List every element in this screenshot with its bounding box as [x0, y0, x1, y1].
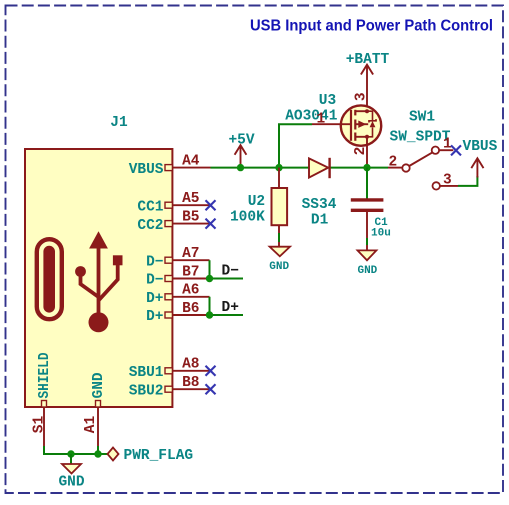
- pin D- name: [146, 254, 163, 270]
- svg-text:VBUS: VBUS: [129, 162, 164, 178]
- svg-text:A6: A6: [182, 283, 199, 299]
- pin SBU2 (B8) stub: [165, 386, 211, 392]
- pin number B5: [182, 209, 199, 225]
- svg-text:A5: A5: [182, 191, 199, 207]
- PWR_FLAG label: [124, 448, 194, 464]
- svg-text:B5: B5: [182, 209, 199, 225]
- net label D-: [222, 264, 239, 280]
- wire bottom ground rail: [44, 446, 108, 454]
- pin number B6: [182, 301, 199, 317]
- USB-C receptacle glyph: [37, 239, 62, 319]
- no-connect X on CC2: [206, 219, 216, 229]
- switch SW1: [388, 147, 458, 190]
- wire C1 to ground: [366, 238, 368, 245]
- pin D- (A7) stub: [165, 257, 210, 263]
- pin SBU2 name: [129, 383, 164, 399]
- junction at gate/resistor branch: [275, 164, 282, 171]
- svg-text:A8: A8: [182, 357, 199, 373]
- diode D1 labels: [302, 197, 337, 229]
- svg-text:A7: A7: [182, 246, 199, 262]
- pin D+ (A6) stub: [165, 294, 210, 300]
- svg-text:A4: A4: [182, 153, 200, 169]
- GND label bottom-left: [58, 475, 84, 491]
- ground bottom-left: [62, 464, 81, 474]
- ground below U2: [270, 242, 290, 256]
- net label D+: [222, 300, 239, 316]
- svg-text:AO3041: AO3041: [285, 109, 338, 125]
- svg-text:D−: D−: [222, 264, 239, 280]
- no-connect X on SBU2: [206, 384, 216, 394]
- pin number 2 (switch common): [389, 155, 398, 171]
- svg-text:S1: S1: [32, 415, 48, 433]
- capacitor C1 labels: [371, 217, 391, 240]
- pin CC1 name: [137, 199, 163, 215]
- svg-text:SW1: SW1: [409, 110, 435, 126]
- USB trident glyph: [75, 231, 122, 332]
- svg-text:SW_SPDT: SW_SPDT: [390, 129, 451, 145]
- pin CC2 (B5) stub: [165, 221, 211, 227]
- svg-text:GND: GND: [357, 265, 377, 277]
- pin GND (A1) stub: [96, 401, 101, 447]
- pin CC2 name: [137, 218, 163, 234]
- pin SBU1 (A8) stub: [165, 368, 211, 374]
- pin VBUS name: [129, 162, 164, 178]
- junction at +5V: [237, 164, 244, 171]
- MOSFET U3 labels: [285, 93, 338, 125]
- pin SHIELD (S1) stub: [42, 401, 47, 447]
- MOSFET U3: [312, 105, 381, 167]
- diode D1: [309, 158, 330, 178]
- pin number 1 (gate): [317, 112, 326, 128]
- svg-text:100K: 100K: [230, 210, 265, 226]
- pin number A8: [182, 357, 199, 373]
- +BATT label: [346, 52, 390, 68]
- svg-text:A1: A1: [83, 415, 99, 433]
- title text: [250, 18, 493, 35]
- wire VBUS rail left: [211, 167, 310, 169]
- svg-text:PWR_FLAG: PWR_FLAG: [124, 448, 194, 464]
- pin D+ name: [146, 309, 163, 325]
- svg-text:B8: B8: [182, 375, 199, 391]
- pin CC1 (A5) stub: [165, 202, 211, 208]
- net label VBUS: [463, 139, 498, 155]
- svg-text:3: 3: [443, 172, 452, 188]
- svg-text:U3: U3: [319, 93, 336, 109]
- junction a1-gnd: [94, 450, 101, 457]
- power symbol +5V: [235, 145, 247, 166]
- GND label below C1: [357, 265, 377, 277]
- svg-text:1: 1: [317, 112, 326, 128]
- svg-text:SHIELD: SHIELD: [37, 352, 53, 398]
- pin D- name: [146, 273, 163, 289]
- svg-text:CC1: CC1: [137, 199, 163, 215]
- svg-text:GND: GND: [58, 475, 84, 491]
- wire U2 to ground: [278, 233, 280, 242]
- capacitor C1: [351, 168, 384, 238]
- svg-text:GND: GND: [269, 261, 289, 273]
- svg-text:D+: D+: [146, 291, 163, 307]
- svg-text:J1: J1: [110, 115, 128, 131]
- power symbol +BATT: [361, 65, 373, 106]
- pin number B7: [182, 264, 199, 280]
- svg-text:SBU2: SBU2: [129, 383, 164, 399]
- svg-text:B7: B7: [182, 264, 199, 280]
- pin number 1 (switch): [443, 137, 452, 153]
- pin number B8: [182, 375, 199, 391]
- svg-text:USB Input and Power Path Contr: USB Input and Power Path Control: [250, 18, 493, 35]
- pin SBU1 name: [129, 365, 164, 381]
- wire VBUS rail right of diode: [330, 167, 388, 169]
- power flag PWR_FLAG: [108, 448, 119, 461]
- svg-text:GND: GND: [91, 372, 107, 398]
- wire gate branch: [279, 124, 312, 167]
- svg-text:SS34: SS34: [302, 197, 337, 213]
- pin number S1: [32, 415, 48, 433]
- svg-text:CC2: CC2: [137, 218, 163, 234]
- svg-text:B6: B6: [182, 301, 199, 317]
- resistor U2: [272, 168, 288, 233]
- svg-text:+BATT: +BATT: [346, 52, 390, 68]
- pin number A5: [182, 191, 199, 207]
- pin SHIELD name: [37, 352, 53, 398]
- junction D-: [206, 275, 213, 282]
- pin GND name: [91, 372, 107, 398]
- svg-text:D+: D+: [146, 309, 163, 325]
- no-connect X on switch pin 1: [451, 145, 461, 155]
- ground below C1: [358, 245, 377, 260]
- svg-text:D1: D1: [311, 213, 329, 229]
- +5V label: [228, 133, 254, 149]
- pin D+ name: [146, 291, 163, 307]
- wire stub to ground symbol: [70, 454, 72, 464]
- junction at C1/switch: [363, 164, 370, 171]
- no-connect X on CC1: [206, 200, 216, 210]
- switch SW1 labels: [390, 110, 451, 146]
- svg-text:D+: D+: [222, 300, 239, 316]
- svg-text:2: 2: [389, 155, 398, 171]
- resistor U2 labels: [230, 194, 265, 226]
- svg-text:10u: 10u: [371, 228, 391, 240]
- connector J1 reference label: [110, 115, 128, 131]
- svg-text:D−: D−: [146, 254, 163, 270]
- svg-text:2: 2: [353, 147, 369, 156]
- pin number 3 (top): [353, 92, 369, 101]
- pin number 3 (switch): [443, 172, 452, 188]
- svg-text:1: 1: [443, 137, 452, 153]
- junction D+: [206, 311, 213, 318]
- pin number A7: [182, 246, 199, 262]
- wire D- to label: [210, 260, 244, 278]
- GND label below U2: [269, 261, 289, 273]
- svg-text:D−: D−: [146, 273, 163, 289]
- pin VBUS (A4) stub: [165, 165, 211, 171]
- power symbol VBUS arrow: [471, 158, 483, 177]
- wire D+ to label: [210, 297, 244, 315]
- no-connect X on SBU1: [206, 366, 216, 376]
- svg-text:VBUS: VBUS: [463, 139, 498, 155]
- junction shield-gnd: [67, 450, 74, 457]
- pin number A6: [182, 283, 199, 299]
- pin D- (B7) stub: [165, 276, 210, 282]
- svg-text:+5V: +5V: [228, 133, 254, 149]
- wire switch pin3 to VBUS arrow: [458, 176, 477, 186]
- svg-text:SBU1: SBU1: [129, 365, 164, 381]
- pin number A1: [83, 415, 99, 433]
- pin D+ (B6) stub: [165, 312, 210, 318]
- connector J1 body: [25, 149, 172, 407]
- svg-text:U2: U2: [248, 194, 265, 210]
- pin number 2 (bottom): [353, 147, 369, 156]
- pin number A4: [182, 153, 200, 169]
